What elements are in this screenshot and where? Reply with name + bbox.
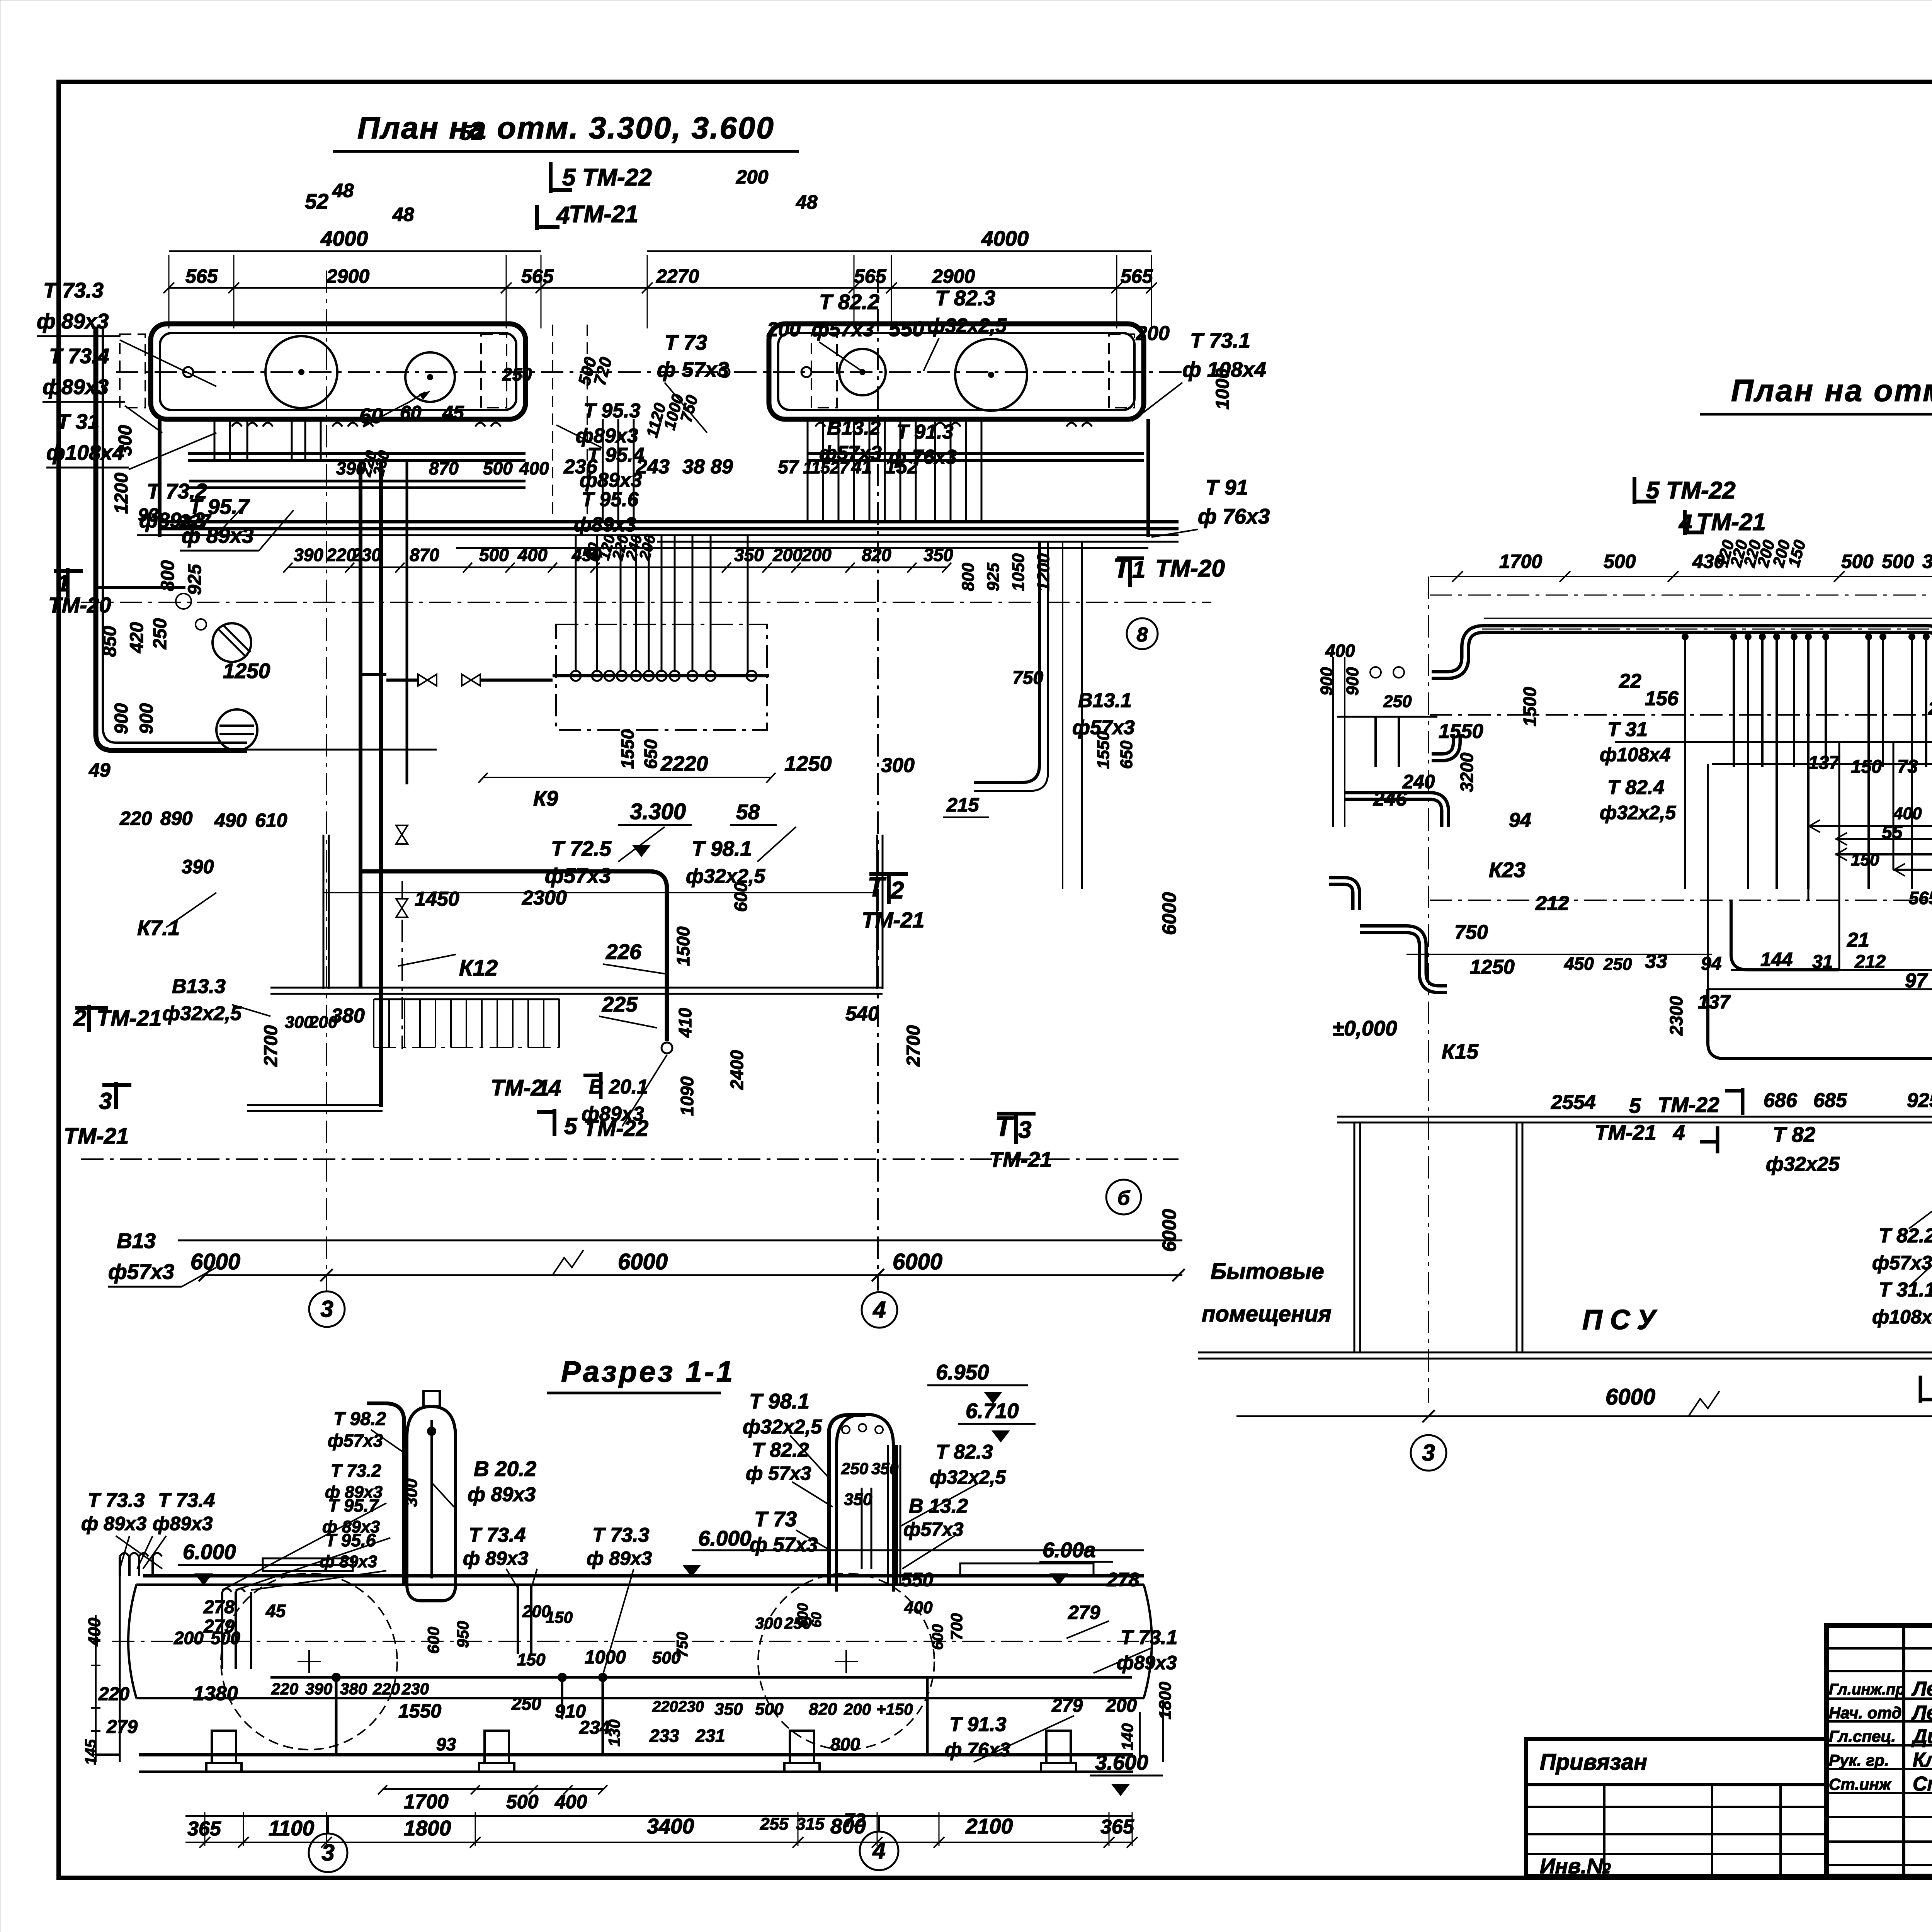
svg-text:93: 93 — [436, 1734, 456, 1754]
svg-text:8: 8 — [1137, 624, 1148, 646]
svg-text:Ст.инж: Ст.инж — [1829, 1775, 1892, 1793]
svg-text:2700: 2700 — [261, 1025, 281, 1067]
svg-text:6.000: 6.000 — [698, 1526, 752, 1550]
svg-text:350: 350 — [844, 1490, 872, 1509]
svg-text:ф108х4: ф108х4 — [46, 440, 124, 464]
svg-text:1250: 1250 — [223, 659, 270, 683]
svg-text:+150: +150 — [876, 1700, 913, 1718]
svg-text:2220: 2220 — [660, 752, 708, 776]
svg-text:3.300: 3.300 — [630, 799, 686, 824]
svg-text:Т 73.4: Т 73.4 — [158, 1489, 215, 1512]
svg-text:ТМ-20: ТМ-20 — [48, 593, 111, 617]
svg-text:25: 25 — [1928, 699, 1932, 719]
svg-text:ТМ-21: ТМ-21 — [569, 201, 638, 228]
svg-text:6000: 6000 — [1605, 1384, 1655, 1410]
svg-text:Т 31.1: Т 31.1 — [1879, 1279, 1932, 1301]
svg-text:137: 137 — [1808, 753, 1840, 773]
svg-text:21: 21 — [1847, 929, 1869, 951]
svg-text:1380: 1380 — [193, 1682, 238, 1705]
svg-text:2270: 2270 — [656, 265, 699, 287]
svg-text:900: 900 — [136, 703, 157, 734]
svg-text:ф57х3: ф57х3 — [545, 864, 611, 888]
svg-text:137: 137 — [1698, 991, 1731, 1013]
svg-text:750: 750 — [674, 1632, 691, 1658]
svg-text:3400: 3400 — [647, 1814, 694, 1838]
svg-text:565: 565 — [1909, 888, 1932, 908]
svg-text:212: 212 — [1854, 952, 1886, 972]
svg-text:565: 565 — [1121, 265, 1153, 287]
svg-text:помещения: помещения — [1202, 1301, 1332, 1327]
svg-text:5: 5 — [564, 1113, 578, 1139]
svg-text:В13.3: В13.3 — [172, 975, 226, 998]
svg-text:800: 800 — [158, 560, 178, 591]
svg-text:2554: 2554 — [1551, 1091, 1596, 1114]
svg-text:220: 220 — [372, 1680, 400, 1698]
svg-text:231: 231 — [695, 1726, 725, 1746]
svg-text:Т 95.3: Т 95.3 — [583, 400, 640, 422]
svg-text:В 20.1: В 20.1 — [589, 1076, 648, 1098]
svg-text:Т 73.1: Т 73.1 — [1190, 328, 1250, 352]
svg-text:350: 350 — [714, 1700, 743, 1719]
svg-text:278: 278 — [1107, 1569, 1139, 1590]
svg-text:3: 3 — [320, 1296, 333, 1322]
svg-text:250: 250 — [511, 1694, 541, 1714]
svg-text:Привязан: Привязан — [1540, 1750, 1647, 1775]
svg-text:94: 94 — [1509, 809, 1531, 832]
svg-text:925: 925 — [185, 564, 205, 595]
svg-text:144: 144 — [1760, 949, 1793, 970]
svg-text:686: 686 — [1764, 1089, 1798, 1112]
svg-text:Т 91.3: Т 91.3 — [949, 1713, 1006, 1736]
svg-text:925: 925 — [1907, 1089, 1932, 1112]
svg-text:В 20.2: В 20.2 — [474, 1457, 536, 1481]
svg-text:Т 73: Т 73 — [754, 1507, 797, 1531]
svg-text:Т 95.6: Т 95.6 — [325, 1530, 376, 1550]
svg-text:315: 315 — [796, 1815, 825, 1833]
svg-text:350: 350 — [1922, 551, 1932, 572]
svg-text:ТМ-21: ТМ-21 — [64, 1124, 129, 1149]
svg-text:ф 57х3: ф 57х3 — [657, 357, 729, 381]
svg-text:420: 420 — [127, 622, 147, 653]
svg-text:240: 240 — [1402, 771, 1435, 793]
svg-text:1800: 1800 — [1156, 1682, 1175, 1719]
svg-text:1090: 1090 — [677, 1076, 697, 1116]
svg-text:Гл.инж.пр: Гл.инж.пр — [1829, 1681, 1905, 1698]
svg-text:220: 220 — [119, 808, 152, 829]
svg-text:ф57х3: ф57х3 — [811, 318, 874, 341]
svg-text:500: 500 — [1882, 551, 1914, 572]
svg-text:550: 550 — [889, 317, 924, 341]
svg-text:550: 550 — [901, 1569, 934, 1590]
svg-text:Т 82: Т 82 — [1773, 1122, 1815, 1146]
svg-text:Т 98.1: Т 98.1 — [692, 837, 752, 861]
svg-text:380: 380 — [340, 1680, 367, 1698]
svg-text:ф 89х3: ф 89х3 — [468, 1483, 536, 1506]
svg-text:К7.1: К7.1 — [137, 916, 180, 940]
svg-text:Инв.№: Инв.№ — [1540, 1854, 1611, 1878]
svg-text:ф108х4: ф108х4 — [1872, 1306, 1932, 1328]
svg-text:60: 60 — [359, 404, 383, 428]
svg-text:Т 31: Т 31 — [1607, 718, 1648, 741]
svg-text:230: 230 — [401, 1680, 429, 1698]
svg-text:565: 565 — [854, 265, 887, 287]
svg-text:Клоков: Клоков — [1913, 1749, 1932, 1771]
svg-text:220: 220 — [652, 1698, 678, 1715]
svg-text:4: 4 — [556, 202, 570, 229]
svg-text:38: 38 — [682, 456, 705, 478]
svg-text:1200: 1200 — [111, 473, 132, 514]
svg-text:5 ТМ-22: 5 ТМ-22 — [1646, 477, 1736, 504]
svg-text:ТМ-22: ТМ-22 — [583, 1116, 648, 1141]
svg-text:6000: 6000 — [1158, 1209, 1180, 1252]
svg-text:Т 73.4: Т 73.4 — [469, 1524, 526, 1546]
svg-text:60: 60 — [808, 1612, 824, 1628]
svg-text:Смирнова: Смирнова — [1913, 1773, 1932, 1795]
svg-text:ПСУ: ПСУ — [1582, 1304, 1663, 1335]
svg-text:Т 73.2: Т 73.2 — [331, 1461, 381, 1481]
svg-text:2300: 2300 — [522, 887, 567, 909]
svg-text:ТМ-21: ТМ-21 — [989, 1147, 1052, 1172]
svg-text:890: 890 — [160, 808, 193, 829]
svg-text:215: 215 — [946, 794, 980, 816]
svg-text:1550: 1550 — [617, 729, 638, 769]
svg-text:ф 76х3: ф 76х3 — [1198, 504, 1270, 528]
svg-text:ф57х3: ф57х3 — [819, 442, 882, 464]
svg-text:246: 246 — [1373, 788, 1407, 810]
svg-text:Т 82.3: Т 82.3 — [936, 1441, 993, 1463]
svg-text:49: 49 — [88, 759, 111, 781]
svg-text:820: 820 — [809, 1700, 837, 1719]
svg-text:2: 2 — [890, 877, 904, 904]
svg-text:ф32х2,5: ф32х2,5 — [930, 1466, 1006, 1488]
svg-text:К12: К12 — [459, 956, 498, 981]
svg-text:650: 650 — [641, 739, 661, 769]
svg-text:57: 57 — [778, 457, 799, 478]
svg-text:ТМ-2: ТМ-2 — [491, 1075, 543, 1100]
svg-text:Лепендин: Лепендин — [1911, 1702, 1932, 1724]
svg-text:400: 400 — [519, 458, 549, 478]
svg-text:200: 200 — [767, 318, 801, 341]
svg-text:1: 1 — [1132, 556, 1145, 583]
svg-text:48: 48 — [796, 191, 818, 213]
svg-text:4: 4 — [872, 1297, 886, 1323]
svg-text:250: 250 — [1603, 955, 1632, 974]
svg-text:ф 57х3: ф 57х3 — [746, 1463, 811, 1484]
svg-text:2100: 2100 — [965, 1814, 1013, 1838]
svg-text:600: 600 — [731, 882, 751, 912]
svg-text:ф89х3: ф89х3 — [43, 375, 109, 399]
svg-text:5 ТМ-22: 5 ТМ-22 — [562, 164, 652, 191]
svg-text:200: 200 — [736, 166, 769, 188]
svg-text:150: 150 — [1851, 757, 1882, 777]
svg-text:390: 390 — [182, 856, 214, 878]
svg-text:278: 278 — [203, 1597, 235, 1617]
svg-text:900: 900 — [1343, 667, 1362, 696]
svg-text:200: 200 — [309, 1013, 338, 1032]
svg-text:94: 94 — [1701, 954, 1721, 974]
svg-text:45: 45 — [265, 1601, 286, 1621]
svg-text:1000: 1000 — [1213, 368, 1233, 410]
svg-text:200: 200 — [844, 1700, 871, 1718]
svg-text:226: 226 — [605, 940, 641, 964]
svg-text:350: 350 — [923, 545, 953, 565]
svg-text:ТМ-21: ТМ-21 — [862, 908, 924, 932]
svg-text:ф 76х3: ф 76х3 — [889, 446, 957, 468]
svg-text:1100: 1100 — [269, 1816, 315, 1840]
svg-text:Т 73.3: Т 73.3 — [43, 278, 104, 302]
svg-text:200: 200 — [772, 545, 803, 565]
svg-text:255: 255 — [760, 1815, 789, 1833]
svg-text:4000: 4000 — [981, 226, 1029, 250]
svg-text:1050: 1050 — [1009, 553, 1028, 591]
svg-text:870: 870 — [410, 545, 439, 565]
svg-text:2400: 2400 — [727, 1050, 747, 1090]
svg-text:ф 89х3: ф 89х3 — [37, 309, 109, 333]
svg-text:400: 400 — [904, 1598, 933, 1617]
svg-text:1550: 1550 — [1439, 720, 1483, 743]
svg-text:Разрез 1-1: Разрез 1-1 — [561, 1355, 735, 1388]
svg-text:Т 91: Т 91 — [1206, 475, 1248, 499]
svg-text:820: 820 — [862, 545, 891, 565]
svg-text:Левитан: Левитан — [1911, 1678, 1932, 1700]
svg-text:350: 350 — [734, 545, 764, 565]
svg-text:610: 610 — [255, 810, 287, 831]
svg-text:156: 156 — [1645, 687, 1679, 710]
svg-text:1700: 1700 — [1499, 551, 1542, 572]
svg-text:6000: 6000 — [1158, 892, 1180, 935]
svg-text:5: 5 — [1629, 1094, 1641, 1117]
svg-text:1550: 1550 — [1094, 731, 1113, 769]
svg-text:410: 410 — [675, 1008, 695, 1038]
svg-text:52: 52 — [305, 189, 329, 213]
svg-text:220: 220 — [271, 1680, 298, 1698]
svg-text:400: 400 — [517, 545, 548, 565]
svg-text:400: 400 — [1325, 641, 1355, 661]
svg-text:45: 45 — [442, 402, 464, 423]
svg-text:390: 390 — [305, 1680, 332, 1698]
svg-text:1700: 1700 — [404, 1791, 449, 1813]
svg-text:870: 870 — [429, 458, 459, 478]
svg-text:ф108х4: ф108х4 — [1600, 744, 1670, 765]
svg-text:В13.1: В13.1 — [1078, 689, 1132, 712]
svg-text:73: 73 — [1897, 757, 1918, 777]
svg-text:2700: 2700 — [903, 1025, 924, 1067]
svg-text:3: 3 — [321, 1840, 334, 1866]
svg-text:План на отм. 3.300, 3.600: План на отм. 3.300, 3.600 — [357, 111, 775, 145]
svg-text:279: 279 — [106, 1717, 138, 1737]
svg-text:600: 600 — [929, 1624, 946, 1650]
svg-text:1800: 1800 — [404, 1816, 451, 1840]
svg-text:48: 48 — [332, 180, 354, 201]
svg-text:400: 400 — [1893, 804, 1922, 823]
svg-text:60: 60 — [400, 402, 422, 423]
svg-text:ф57х3: ф57х3 — [328, 1430, 383, 1451]
svg-text:700: 700 — [947, 1613, 966, 1640]
svg-text:1500: 1500 — [673, 926, 693, 966]
svg-text:1250: 1250 — [784, 752, 832, 776]
svg-text:6.950: 6.950 — [936, 1360, 989, 1384]
svg-text:ТМ-21: ТМ-21 — [1595, 1121, 1656, 1145]
svg-text:900: 900 — [111, 703, 132, 734]
svg-text:145: 145 — [82, 1739, 99, 1765]
svg-text:279: 279 — [1068, 1602, 1100, 1623]
svg-text:950: 950 — [454, 1621, 472, 1648]
svg-text:Т 73.4: Т 73.4 — [49, 344, 109, 368]
svg-text:Т 82.3: Т 82.3 — [935, 286, 995, 310]
svg-text:4000: 4000 — [320, 226, 368, 250]
svg-text:Т: Т — [995, 1111, 1014, 1142]
svg-text:800: 800 — [830, 1734, 860, 1754]
svg-text:48: 48 — [392, 204, 414, 225]
svg-text:ТМ-20: ТМ-20 — [1155, 555, 1225, 582]
svg-text:±0,000: ±0,000 — [1332, 1016, 1397, 1040]
svg-text:300: 300 — [402, 1478, 421, 1507]
svg-text:ф 89х3: ф 89х3 — [587, 1548, 652, 1569]
svg-text:89: 89 — [711, 456, 733, 478]
svg-text:925: 925 — [984, 563, 1003, 591]
svg-text:1250: 1250 — [1470, 956, 1515, 978]
svg-text:540: 540 — [845, 1003, 879, 1025]
svg-text:К9: К9 — [533, 786, 558, 810]
svg-text:ф89х3: ф89х3 — [1117, 1652, 1177, 1673]
svg-text:365: 365 — [1100, 1816, 1134, 1838]
svg-text:ф32х2,5: ф32х2,5 — [162, 1002, 242, 1025]
svg-text:200: 200 — [1105, 1696, 1137, 1716]
svg-text:Т 73.3: Т 73.3 — [88, 1489, 145, 1512]
svg-text:3: 3 — [99, 1088, 112, 1114]
svg-text:К23: К23 — [1489, 858, 1526, 882]
svg-text:Т 73.3: Т 73.3 — [592, 1524, 649, 1546]
svg-text:3: 3 — [1422, 1440, 1435, 1466]
svg-text:450: 450 — [1564, 954, 1594, 974]
svg-text:600: 600 — [424, 1627, 442, 1654]
svg-text:1: 1 — [537, 1075, 549, 1100]
svg-text:Т 95.7: Т 95.7 — [328, 1495, 379, 1515]
svg-text:1450: 1450 — [415, 888, 459, 910]
svg-text:150: 150 — [1851, 850, 1879, 869]
svg-text:850: 850 — [100, 626, 120, 657]
svg-text:500: 500 — [1604, 551, 1636, 572]
svg-text:93: 93 — [138, 505, 159, 526]
svg-text:390: 390 — [294, 545, 323, 565]
svg-text:300: 300 — [755, 1614, 782, 1632]
svg-text:3: 3 — [1018, 1117, 1031, 1143]
svg-text:ф 89х3: ф 89х3 — [463, 1548, 529, 1569]
svg-text:ф57х3: ф57х3 — [108, 1260, 174, 1284]
svg-text:58: 58 — [736, 800, 760, 824]
svg-text:1200: 1200 — [1034, 553, 1053, 591]
svg-text:Т 91.3: Т 91.3 — [896, 421, 953, 443]
svg-text:ф32х2,5: ф32х2,5 — [927, 315, 1007, 337]
svg-text:6000: 6000 — [190, 1249, 240, 1274]
svg-text:ф 89х3: ф 89х3 — [320, 1552, 377, 1571]
svg-text:План на отм. 0.000: План на отм. 0.000 — [1731, 373, 1932, 408]
svg-text:Т 98.2: Т 98.2 — [333, 1409, 386, 1429]
svg-text:97: 97 — [1905, 969, 1928, 992]
svg-text:Т 31: Т 31 — [57, 410, 99, 434]
svg-text:ф32х25: ф32х25 — [1766, 1153, 1840, 1175]
svg-text:Т 82.2: Т 82.2 — [752, 1439, 809, 1461]
svg-text:250: 250 — [502, 364, 532, 384]
svg-text:ф32х2,5: ф32х2,5 — [743, 1416, 822, 1438]
svg-text:225: 225 — [602, 992, 638, 1016]
svg-text:2300: 2300 — [1666, 996, 1686, 1036]
svg-text:685: 685 — [1813, 1089, 1847, 1112]
svg-text:ТМ-21: ТМ-21 — [1696, 509, 1766, 536]
svg-text:4: 4 — [548, 1075, 561, 1100]
svg-text:200: 200 — [173, 1628, 204, 1648]
svg-text:2900: 2900 — [326, 265, 369, 287]
svg-text:250: 250 — [150, 618, 170, 650]
svg-text:В13: В13 — [117, 1229, 156, 1253]
svg-text:750: 750 — [1012, 668, 1043, 688]
svg-text:500: 500 — [479, 545, 509, 565]
svg-text:Т 82.2: Т 82.2 — [1879, 1225, 1932, 1247]
svg-text:200: 200 — [801, 545, 832, 565]
svg-text:500: 500 — [755, 1700, 784, 1719]
svg-text:130: 130 — [605, 1719, 623, 1747]
svg-text:230: 230 — [351, 545, 381, 565]
svg-text:В13.2: В13.2 — [827, 417, 881, 439]
svg-text:227: 227 — [179, 511, 211, 532]
svg-text:Т 98.1: Т 98.1 — [749, 1389, 810, 1413]
svg-text:Гл.спец.: Гл.спец. — [1829, 1727, 1896, 1745]
svg-text:ф57х3: ф57х3 — [1872, 1252, 1932, 1274]
svg-text:Т 72.5: Т 72.5 — [551, 837, 612, 861]
svg-text:б: б — [1117, 1187, 1131, 1209]
svg-text:200: 200 — [1136, 322, 1170, 345]
svg-text:ф 89х3: ф 89х3 — [81, 1513, 147, 1534]
svg-text:Рук. гр.: Рук. гр. — [1829, 1751, 1889, 1769]
svg-text:ф32х2,5: ф32х2,5 — [1600, 802, 1676, 823]
svg-text:ф32х2,5: ф32х2,5 — [686, 865, 765, 888]
svg-text:55: 55 — [1882, 822, 1903, 843]
svg-text:3200: 3200 — [1457, 752, 1477, 792]
svg-text:800: 800 — [830, 1814, 866, 1838]
svg-text:Бытовые: Бытовые — [1211, 1259, 1324, 1284]
svg-text:22: 22 — [1619, 670, 1641, 692]
svg-text:1500: 1500 — [1520, 687, 1540, 726]
svg-text:250: 250 — [841, 1459, 868, 1478]
svg-text:500: 500 — [1841, 551, 1874, 572]
svg-text:Т 95.6: Т 95.6 — [582, 488, 639, 511]
svg-text:К15: К15 — [1442, 1039, 1479, 1063]
svg-text:2900: 2900 — [932, 265, 975, 287]
svg-text:Т 82.2: Т 82.2 — [819, 290, 879, 314]
svg-text:150: 150 — [517, 1650, 546, 1669]
svg-text:500: 500 — [211, 1628, 240, 1648]
svg-text:ф89х3: ф89х3 — [574, 514, 636, 536]
svg-text:220: 220 — [98, 1684, 129, 1704]
svg-text:ф57х3: ф57х3 — [903, 1519, 964, 1540]
svg-text:Дигин: Дигин — [1911, 1725, 1932, 1748]
svg-text:250: 250 — [1383, 692, 1412, 711]
svg-text:4: 4 — [1673, 1121, 1685, 1145]
svg-text:650: 650 — [1117, 740, 1136, 769]
svg-text:4: 4 — [872, 1838, 885, 1864]
svg-text:490: 490 — [214, 810, 247, 831]
svg-text:300: 300 — [881, 754, 915, 777]
svg-text:500: 500 — [483, 458, 513, 478]
svg-text:Т 82.4: Т 82.4 — [1607, 776, 1664, 799]
svg-text:ф89х3: ф89х3 — [153, 1513, 213, 1534]
svg-text:565: 565 — [185, 265, 218, 287]
svg-text:800: 800 — [959, 563, 978, 591]
svg-text:400: 400 — [554, 1791, 587, 1813]
svg-text:6000: 6000 — [618, 1249, 668, 1274]
svg-text:33: 33 — [1645, 950, 1667, 973]
svg-text:233: 233 — [649, 1726, 679, 1746]
